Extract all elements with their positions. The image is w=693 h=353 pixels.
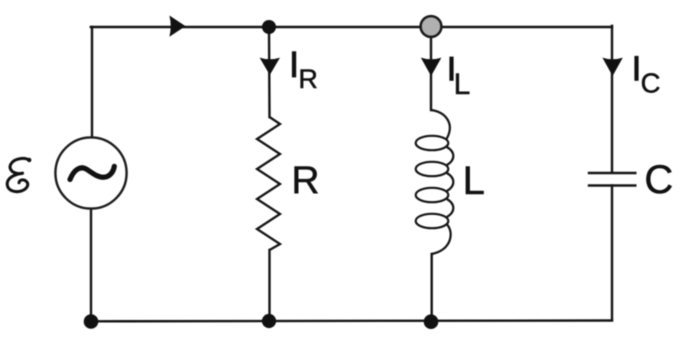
- node: bottom R junction dot: [262, 314, 276, 328]
- node: L branch top junction (gray node): [421, 16, 442, 37]
- wire: R branch top: [268, 27, 271, 117]
- wire: L branch bottom: [431, 254, 433, 321]
- coil loop 4: [416, 214, 449, 228]
- wire: source top lead: [91, 27, 93, 138]
- coil bottom hook: [432, 225, 451, 255]
- node: bottom source junction dot: [84, 314, 99, 329]
- coil loop 2: [416, 162, 449, 176]
- wire: right branch vertical top (to capacitor): [611, 26, 613, 172]
- coil link arc 2-3: [447, 173, 454, 191]
- svg-text:C: C: [644, 158, 673, 202]
- coil link arc 3-4: [447, 199, 454, 217]
- svg-text:C: C: [641, 68, 661, 99]
- wire: source bottom lead: [90, 210, 92, 322]
- arrow for current I_C: [602, 58, 622, 76]
- label I_C: [634, 56, 638, 81]
- svg-text:L: L: [454, 68, 471, 101]
- arrow for current I_R: [260, 58, 280, 75]
- wire: R branch bottom: [268, 250, 270, 321]
- coil link arc 1-2: [447, 147, 454, 165]
- coil top hook: [431, 110, 450, 139]
- node: R branch top junction dot: [262, 20, 276, 34]
- AC source sine (tilde) symbol: [70, 166, 114, 179]
- AC source circle: [55, 137, 126, 208]
- capacitor C bottom plate: [588, 184, 637, 187]
- coil loop 1: [416, 136, 449, 150]
- current arrow on top wire: [169, 16, 185, 37]
- arrow for current I_L: [421, 58, 442, 76]
- svg-text:R: R: [298, 64, 318, 94]
- resistor R: [257, 117, 280, 250]
- node: bottom L junction dot: [424, 314, 439, 329]
- wire: L branch top: [430, 27, 432, 110]
- capacitor C top plate: [588, 172, 637, 175]
- svg-text:R: R: [291, 159, 319, 202]
- label EMF script E: [7, 158, 29, 191]
- coil loop 3: [416, 188, 449, 202]
- label I_R: [292, 51, 296, 77]
- label EMF script E: top terminal dot: [27, 158, 31, 162]
- label I_L: [449, 57, 453, 81]
- inductor L (coil): [416, 110, 454, 254]
- svg-text:L: L: [463, 159, 485, 203]
- wire: right branch vertical bottom (capacitor to bottom bus): [611, 186, 613, 321]
- wire: top bus (left corner to right corner): [91, 26, 612, 28]
- wire: bottom bus: [91, 319, 612, 322]
